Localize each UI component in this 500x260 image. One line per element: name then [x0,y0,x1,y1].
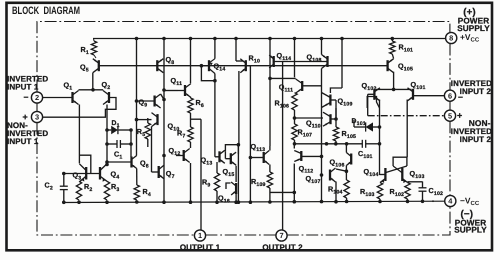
label non-inverted input 1 [7,121,48,146]
label Q15 [223,167,235,178]
minus sign pin 6 [458,92,463,102]
pin 6 [444,90,455,101]
label R5 [137,127,145,138]
transistor Q3 [79,164,86,182]
wire Q12 emitter to rail [189,163,193,204]
loop Q110 [367,97,379,109]
IC package boundary top [37,22,450,92]
transistor Q12 [176,149,190,163]
transistor Q14 [201,59,215,74]
label R107 [298,128,313,139]
wire R106 R107 tap [295,117,324,119]
transistor Q112 [294,144,321,162]
wire Q15 emitter down [235,166,237,182]
svg-text:7: 7 [279,231,283,240]
transistor Q107 [330,168,336,182]
svg-text:INPUT 2: INPUT 2 [460,87,492,96]
label Q103 [410,169,425,180]
pin 2 [31,92,42,103]
wire Q13 emitter to R9 [216,162,218,173]
label Q4 [111,170,120,181]
diode D101 [354,120,381,132]
wire Q11 base [164,90,178,92]
IC package boundary bottom-mid [205,234,276,236]
label R4 [143,187,151,198]
cross couple Q16 [226,183,231,189]
output2 column [282,62,284,231]
label Q107 [306,174,321,185]
transistor Q109 [322,93,331,108]
label (-) power supply [454,209,487,235]
wire Q107 collector [336,169,346,171]
label +Vcc [460,32,480,44]
label Q113 [251,142,266,153]
label R101 [399,43,414,54]
resistor R1 [91,39,96,59]
+Vcc rail [93,38,446,40]
transistor Q108 [322,55,328,69]
label Q1 [64,81,73,92]
label -Vcc [460,195,480,207]
column x190 top [189,37,193,83]
IC package boundary bottom-right [287,206,450,235]
transistor Q16 [231,182,236,195]
node Q14 base [200,64,204,68]
label R106 [275,99,290,110]
node C1 left [105,142,109,146]
wire Q113 base [250,157,263,159]
wire Q102 base [368,94,375,115]
label Q3 [73,171,82,182]
transistor Q10 [135,113,158,127]
transistor Q17 [240,59,246,73]
label R104 [328,185,343,196]
-Vcc rail [62,201,445,202]
label Q14 [214,62,226,73]
transistor Q4 [100,164,107,182]
label Q16 [218,194,230,205]
transistor Q1 [73,91,79,105]
label Q108 [307,53,322,64]
cap row 2 [293,142,362,146]
transistor Q6 [132,156,137,169]
resistor R101 [390,37,395,59]
capacitor C101 [362,140,379,148]
wire pin5 to Q102 [368,115,445,117]
pin 4 [445,195,456,206]
node Q9 collector [161,94,166,101]
label R6 [196,98,204,109]
label Q6 [140,159,149,170]
svg-text:−: − [24,92,29,102]
label Q12 [169,146,181,157]
wire Q101 emitter down [406,100,408,158]
label Q10 [168,122,180,133]
pin 1 [194,230,205,241]
transistor Q106 [346,153,351,166]
column x164 [162,37,166,204]
bias line [99,65,388,67]
label C102 [429,186,444,197]
label D1 [112,120,120,129]
label R9 [202,178,210,189]
capacitor C2 [60,172,68,204]
resistor R9 [214,173,219,204]
resistor R105 [333,100,338,144]
label C2 [45,181,53,192]
resistor R103 [377,183,382,204]
transistor Q13 [220,150,225,163]
rail dot C102 [432,200,434,202]
label inverted input 1 [7,75,48,92]
label R1 [81,45,89,56]
node tail 1 [79,88,104,92]
label Q109 [338,97,353,108]
wire Q112 emitter [293,164,297,204]
transistor Q104 [380,166,407,183]
svg-text:INPUT 1: INPUT 1 [7,83,39,92]
wire D1 C1 right leg [129,128,133,157]
wire Q109 top loop [330,37,343,93]
title BLOCK DIAGRAM [12,5,80,17]
pin 7 [276,230,287,241]
output1 column [191,119,202,230]
label Q114 [277,51,292,62]
label Q112 [299,164,314,175]
label C101 [358,149,373,160]
transistor Q7 [159,165,165,179]
node D1 anode [105,128,109,132]
label Q7 [166,169,175,180]
svg-text:3: 3 [35,113,39,122]
wire Q106 collector [345,144,347,153]
transistor Q113 [264,151,270,165]
wire Q105 collector to tail2 [393,72,395,90]
svg-text:2: 2 [35,93,39,102]
wire C2 to Q3 Q4 bases [62,172,100,176]
wire Q1 emitter column [78,105,80,164]
wire Q2 emitter down [106,105,108,164]
pin 8 [446,32,457,43]
resistor R6 [188,98,193,128]
wire Q108 emitter up [320,37,324,55]
wire Q107 emitter [334,182,338,204]
label D101 [352,118,366,127]
plus sign pin 5 [457,111,462,121]
column x379 [378,100,382,176]
resistor R7 [188,127,193,148]
label (+) power supply [457,7,490,33]
resistor R109 [267,165,272,204]
loop Q14 diode [201,66,216,83]
svg-text:OUTPUT 2: OUTPUT 2 [262,243,303,252]
transistor Q15 [231,152,236,165]
resistor R107 [292,118,297,144]
transistor Q5 [93,59,99,73]
wire Q106 emitter [345,166,349,181]
plus sign pin 3 [23,112,28,122]
wire pin3 to Q2 base loop [42,98,116,118]
svg-text:BLOCK DIAGRAM: BLOCK DIAGRAM [12,5,80,17]
resistor R102 [405,183,410,204]
label Q11 [171,76,183,87]
label R102 [390,187,405,198]
diode D1 [107,126,131,134]
column x236 hook [234,37,243,61]
column x270 [268,37,296,80]
column x322 [320,69,324,204]
node tail 2 [376,88,412,92]
label output 2 [262,243,303,252]
pin 3 [31,111,42,122]
svg-text:5: 5 [448,111,452,120]
label R10 [249,54,261,65]
label Q8 [166,55,175,66]
wire pin2 to Q1 base [42,97,71,99]
label R109 [251,177,266,188]
wire Q10 emitter down [152,127,159,172]
label C1 [114,150,122,161]
wire pin6 to Q101 [413,95,445,97]
svg-text:6: 6 [448,91,452,100]
transistor Q9 [135,94,161,108]
resistor R3 [104,181,109,204]
svg-text:+: + [457,111,462,121]
transistor Q102 [374,88,380,101]
capacitor C1 [107,140,131,148]
label output 1 [180,243,221,252]
label R2 [84,182,92,193]
wire Q109 base [330,99,336,101]
cross couple Q103 Q104 [393,157,407,166]
resistor R4 [134,185,139,204]
label Q9 [139,98,148,109]
label non-inverted input 2 [451,118,492,144]
wire Q6 emitter to R4 [136,169,138,186]
wire Q14 emitter to rail [213,37,217,59]
resistor R104 [344,180,349,203]
label R7 [177,129,185,140]
label Q2 [102,80,111,91]
transistor Q101 [408,88,414,101]
label Q105 [398,62,413,73]
label R3 [111,182,119,193]
wire Q114 base row [274,61,328,63]
svg-text:−: − [458,92,463,102]
label Q106 [330,158,345,169]
pin 5 [444,110,455,121]
transistor Q11 [178,84,191,98]
IC package boundary left-bottom [37,103,195,235]
transistor Q114 [269,55,274,68]
transistor Q2 [103,91,109,105]
svg-text:1: 1 [198,231,202,240]
cross couple Q3 collector to bases [79,155,90,173]
label Q102 [362,81,377,92]
wire Q113 collector up [269,68,271,151]
wire Q104 base [379,174,385,176]
wire Q16 to rail [234,194,238,204]
label Q111 [279,83,293,94]
IC package boundary right [449,44,451,196]
label R103 [360,187,375,198]
wire Q5 collector to tail [92,73,94,90]
transistor Q8 [157,59,163,73]
transistor Q110 [323,108,338,126]
label Q13 [201,156,213,167]
node Q6 base [105,160,131,164]
label R105 [342,129,357,140]
svg-text:INPUT 1: INPUT 1 [7,137,39,146]
cross couple Q13 Q15 [225,143,240,159]
svg-text:INPUT 2: INPUT 2 [460,135,492,144]
label inverted input 2 [451,79,492,96]
resistor R2 [76,181,81,204]
column x250 [246,66,252,204]
column x136 [135,37,139,156]
resistor R5 [145,118,150,147]
minus sign pin 2 [24,92,29,102]
wire jog output2 [270,191,296,195]
resistor R106 [292,37,297,120]
svg-text:OUTPUT 1: OUTPUT 1 [180,243,221,252]
label Q5 [80,63,89,74]
label Q101 [411,80,426,91]
transistor Q105 [388,59,394,73]
transistor Q103 [393,166,407,183]
node Q4 collector [105,163,109,167]
capacitor C102 [408,182,427,204]
column x240 [237,71,241,204]
label Q104 [364,167,379,178]
label Q110 [306,119,321,130]
svg-text:SUPPLY: SUPPLY [454,226,487,235]
transistor Q111 [296,79,322,93]
svg-text:8: 8 [449,34,453,43]
column Q14 to Q13 [215,74,220,157]
